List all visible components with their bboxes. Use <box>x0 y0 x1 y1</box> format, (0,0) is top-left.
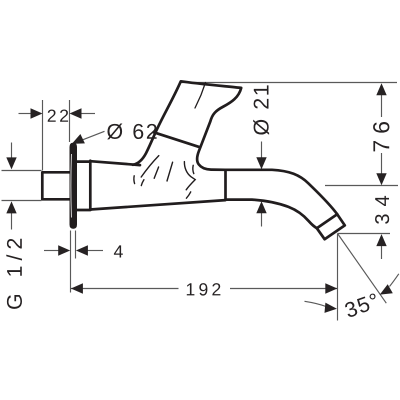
flange inner highlight <box>70 154 73 218</box>
sketch arc left 1 <box>141 156 159 177</box>
dim 4 extension left <box>70 231 72 293</box>
cone base vertical <box>89 161 92 210</box>
35deg leader tail left <box>305 301 327 306</box>
extension line outlet level horizontal <box>338 233 391 235</box>
dim 192 line left segment <box>71 288 179 290</box>
text 76 (rotated) <box>373 122 389 151</box>
sketch arc left 2 <box>141 180 144 186</box>
arrowhead G12 up <box>6 201 16 213</box>
G12 lower arrow tail <box>11 213 13 230</box>
cone top edge <box>90 161 140 165</box>
arrowhead 34 up <box>376 234 386 246</box>
aerator band <box>317 214 345 239</box>
arrowhead 22 right <box>70 108 82 118</box>
G12 extension bottom <box>2 200 42 202</box>
arrowhead 192 left <box>71 283 83 293</box>
spout junction line <box>224 170 227 199</box>
arrowhead 35 left leader <box>325 303 337 313</box>
sketch stroke small <box>133 176 136 184</box>
arrowhead O21 down <box>256 157 266 169</box>
sketch arc right 2 <box>192 165 195 173</box>
arrowhead G12 down <box>6 157 16 169</box>
dim 76 line lower segment <box>381 153 383 175</box>
inlet pipe <box>42 172 72 199</box>
wall flange (filled) <box>70 143 78 229</box>
dim 192 line right segment <box>230 288 337 290</box>
O21 lower leader tail <box>261 212 263 227</box>
arrowhead 76 up <box>376 83 386 95</box>
arrowhead 76-34 down <box>376 173 386 185</box>
dim 4 right tail <box>87 250 103 252</box>
handle face tick <box>195 83 206 109</box>
arrowhead 192 right <box>325 283 337 293</box>
35deg vertical reference <box>337 234 339 321</box>
dim 4 left tail <box>44 250 60 252</box>
arrowhead 4 left <box>58 245 70 255</box>
text 35deg (rotated) <box>344 293 380 318</box>
spout top edge <box>226 170 338 214</box>
spout bottom edge <box>226 200 317 229</box>
arrowhead 22 left <box>31 108 43 118</box>
dim 76 line upper segment <box>381 94 383 117</box>
extension line outlet-top level <box>325 185 398 187</box>
sketch slash 1 <box>154 167 158 178</box>
O62 leader line <box>74 131 105 143</box>
O21 upper leader tail <box>261 142 263 159</box>
body cylinder bottom <box>77 209 91 212</box>
text 22 <box>48 110 68 122</box>
handle base line <box>154 132 200 147</box>
sketch swoosh right <box>184 162 195 190</box>
dim 22 right tail <box>81 113 96 115</box>
arrowhead O62 leader <box>72 134 85 144</box>
handle and dome outline <box>133 81 241 170</box>
sketch slash 2 <box>167 162 173 181</box>
G12 upper arrow tail <box>11 143 13 159</box>
arrowhead 4 right <box>76 245 88 255</box>
text O62 <box>107 124 156 140</box>
G12 extension top <box>2 170 42 172</box>
35deg leader tail right <box>390 274 399 287</box>
sketch swoosh tail <box>186 192 190 198</box>
text 34 (rotated) <box>375 196 389 224</box>
text O21 (rotated) <box>253 85 269 134</box>
35deg diagonal ray <box>338 234 387 304</box>
extension line right of 22 <box>69 100 71 142</box>
text G 1/2 (rotated) <box>6 239 22 309</box>
dim 22 left tail <box>19 113 32 115</box>
body cylinder top <box>77 160 91 163</box>
faucet outline <box>42 81 345 239</box>
extension line left of 22 <box>42 100 44 171</box>
extension line top (handle highest point level) <box>181 82 397 84</box>
dim 34 bottom tail <box>381 245 383 259</box>
text 192 <box>187 283 221 296</box>
arrowhead O21 up <box>256 201 266 213</box>
text 4 <box>114 245 123 257</box>
sketch marks under handle <box>134 83 206 199</box>
dim 4 extension right <box>75 231 77 259</box>
arrowhead 35 right leader <box>380 284 393 294</box>
cone bottom edge <box>90 200 225 209</box>
